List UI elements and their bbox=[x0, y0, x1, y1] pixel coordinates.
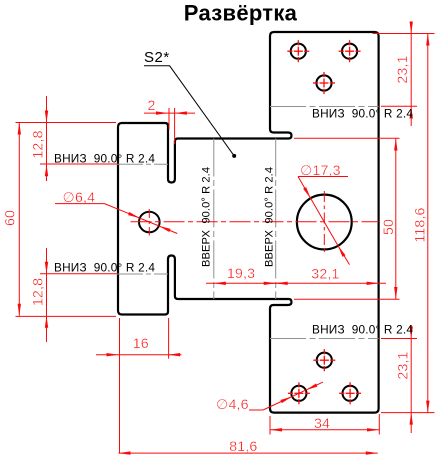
vertical centerline small hole bbox=[148, 209, 150, 236]
svg-text:12,8: 12,8 bbox=[31, 130, 47, 158]
svg-text:ВВЕРХ 90.0° R 2.4: ВВЕРХ 90.0° R 2.4 bbox=[201, 167, 213, 267]
ext line bottom bend bbox=[381, 338, 417, 340]
hole H5 bottom-left (Ø4,6) bbox=[291, 386, 306, 401]
bend line bottom-right flange bbox=[270, 338, 379, 340]
svg-text:118,6: 118,6 bbox=[412, 207, 428, 242]
ext line 34 left bbox=[269, 416, 271, 435]
bend line vertical 1 bbox=[213, 139, 215, 300]
svg-text:Развёртка: Развёртка bbox=[184, 1, 298, 26]
ext line flange bottom bbox=[16, 315, 117, 317]
ext line 16 right bbox=[168, 318, 170, 359]
svg-text:ВВЕРХ 90.0° R 2.4: ВВЕРХ 90.0° R 2.4 bbox=[264, 167, 276, 267]
ext line top edge bbox=[373, 33, 435, 35]
svg-text:60: 60 bbox=[3, 210, 19, 226]
vertical centerline big hole bbox=[323, 191, 325, 254]
svg-text:16: 16 bbox=[133, 336, 149, 352]
ext line slot right bbox=[174, 108, 176, 144]
svg-text:∅4,6: ∅4,6 bbox=[216, 397, 249, 413]
svg-text:2: 2 bbox=[147, 98, 155, 114]
chord through flange hole bbox=[292, 390, 306, 396]
ext line slot left bbox=[168, 108, 170, 130]
svg-text:12,8: 12,8 bbox=[31, 278, 47, 306]
hole H1 top-left (Ø4,6) bbox=[291, 44, 306, 59]
ext line left-lower bend bbox=[40, 273, 117, 275]
ext line bottom edge bbox=[381, 412, 435, 414]
svg-text:ВНИЗ 90.0° R 2.4: ВНИЗ 90.0° R 2.4 bbox=[312, 107, 413, 121]
ext line central top bbox=[294, 137, 400, 139]
ext line central bottom bbox=[294, 298, 400, 300]
hole small left (Ø6,4) bbox=[139, 212, 160, 233]
svg-text:32,1: 32,1 bbox=[311, 267, 339, 283]
svg-text:19,3: 19,3 bbox=[227, 266, 255, 282]
svg-text:ВНИЗ 90.0° R 2.4: ВНИЗ 90.0° R 2.4 bbox=[54, 261, 155, 275]
horizontal centerline bbox=[131, 221, 379, 223]
ext line left-upper bend bbox=[40, 163, 117, 165]
hole H4 bottom-center (Ø4,6) bbox=[317, 353, 332, 368]
bend line top-right flange bbox=[270, 106, 379, 108]
ext line left (16/81,6) bbox=[119, 318, 121, 453]
chord through big hole bbox=[311, 198, 338, 245]
bend line left-lower (dash-dot) bbox=[117, 273, 168, 275]
bend line vertical 2 bbox=[275, 139, 277, 300]
hole H2 top-right (Ø4,6) bbox=[342, 44, 357, 59]
hole H3 top-center (Ø4,6) bbox=[316, 75, 331, 90]
chord through small hole bbox=[140, 218, 159, 226]
svg-text:S2*: S2* bbox=[144, 49, 170, 66]
svg-text:ВНИЗ 90.0° R 2.4: ВНИЗ 90.0° R 2.4 bbox=[54, 152, 155, 166]
hole H6 bottom-right (Ø4,6) bbox=[343, 386, 358, 401]
bend line left-upper (dash-dot) bbox=[117, 163, 168, 165]
svg-text:50: 50 bbox=[381, 219, 397, 235]
svg-text:23,1: 23,1 bbox=[395, 351, 411, 379]
ext line flange top bbox=[16, 122, 117, 124]
hole big (Ø17,3) bbox=[297, 195, 352, 250]
part outline (flat pattern) bbox=[118, 32, 379, 413]
svg-text:23,1: 23,1 bbox=[395, 55, 411, 83]
ext line top bend bbox=[381, 105, 417, 107]
ext line 34 right bbox=[378, 414, 380, 435]
svg-text:ВНИЗ 90.0° R 2.4: ВНИЗ 90.0° R 2.4 bbox=[312, 323, 413, 337]
